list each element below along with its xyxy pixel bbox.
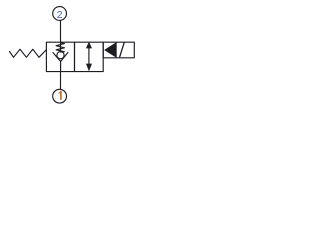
wire stem through spring bbox=[60, 42, 62, 52]
solenoid box bbox=[103, 42, 134, 58]
node 1 (port circle) bbox=[53, 89, 67, 103]
wire port 2 to valve body bbox=[60, 20, 62, 42]
solenoid triangle bbox=[105, 43, 117, 58]
svg-text:2: 2 bbox=[57, 9, 63, 21]
poppet seat bbox=[53, 53, 68, 62]
bias spring (left of valve) bbox=[10, 49, 47, 57]
flow path arrowhead up bbox=[86, 42, 91, 48]
solenoid proportional slash bbox=[120, 43, 125, 57]
poppet ball bbox=[57, 52, 64, 59]
flow path arrow shaft (right box) bbox=[88, 46, 90, 67]
flow path arrowhead down bbox=[86, 64, 91, 71]
wire valve body to port 1 bbox=[60, 72, 62, 90]
poppet spring (inside left box) bbox=[56, 43, 64, 52]
valve envelope left position box bbox=[46, 42, 74, 71]
port 1 label bbox=[59, 92, 61, 100]
wire poppet to bottom of box bbox=[60, 62, 62, 72]
valve envelope right position box bbox=[75, 42, 104, 71]
node 2 (port circle) bbox=[53, 7, 67, 21]
